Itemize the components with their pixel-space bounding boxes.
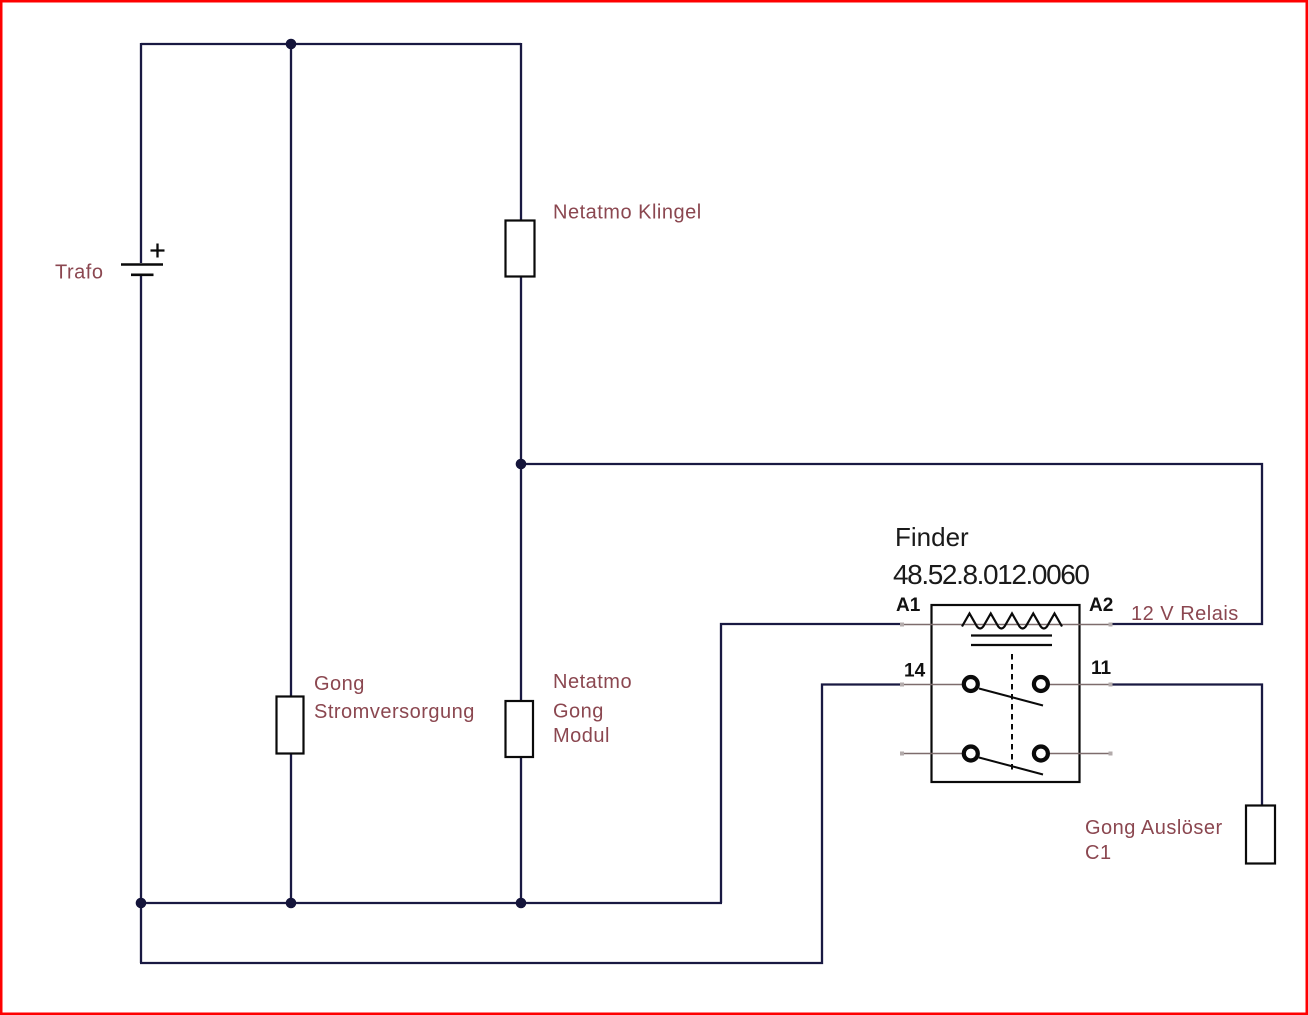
relay coil winding bbox=[962, 614, 1062, 629]
pin label A1 bbox=[896, 595, 921, 616]
junction node Klingel/relay branch bbox=[516, 459, 527, 470]
label Netatmo Klingel bbox=[553, 202, 702, 224]
svg-text:48.52.8.012.0060: 48.52.8.012.0060 bbox=[893, 559, 1089, 590]
relay contact circle 11 bbox=[1034, 677, 1048, 691]
wire left column (Trafo branch) lower bbox=[140, 276, 142, 963]
pin end dot A2 bbox=[1109, 623, 1113, 627]
svg-text:A2: A2 bbox=[1089, 595, 1113, 616]
battery Trafo symbol bbox=[121, 244, 165, 275]
relay contact circle lower-left bbox=[964, 747, 978, 761]
label Netatmo Gong Modul bbox=[553, 671, 632, 747]
pin label 11 bbox=[1091, 658, 1112, 679]
pin line 11 stub bbox=[1049, 684, 1111, 686]
svg-text:Trafo: Trafo bbox=[55, 262, 103, 284]
wire left column (Trafo branch) upper bbox=[140, 43, 142, 263]
relay core line lower bbox=[971, 644, 1052, 646]
svg-text:Gong: Gong bbox=[314, 673, 365, 695]
svg-text:A1: A1 bbox=[896, 595, 921, 616]
label Gong Stromversorgung bbox=[314, 673, 475, 723]
resistor Gong Stromversorgung bbox=[277, 697, 304, 754]
pin line lower-left spare stub bbox=[903, 753, 963, 755]
wire middle column (Gong Stromversorgung) lower bbox=[290, 753, 292, 903]
relay contact arm lower bbox=[979, 758, 1043, 775]
label 12 V Relais bbox=[1131, 603, 1239, 625]
svg-text:C1: C1 bbox=[1085, 842, 1112, 864]
svg-text:12 V Relais: 12 V Relais bbox=[1131, 603, 1239, 625]
junction node bottom Klingel column bbox=[516, 898, 527, 909]
wire middle column (Gong Stromversorgung) upper bbox=[290, 44, 292, 696]
junction node bottom middle bbox=[286, 898, 297, 909]
pin line A1-A2 through coil bbox=[903, 624, 1111, 626]
svg-text:14: 14 bbox=[904, 661, 926, 682]
svg-text:Gong Auslöser: Gong Auslöser bbox=[1085, 817, 1223, 839]
wire top bus from left column to Klingel column bbox=[141, 43, 521, 45]
label Gong Ausloeser C1 bbox=[1085, 817, 1223, 864]
pin end dot lower-right spare bbox=[1109, 752, 1113, 756]
pin label A2 bbox=[1089, 595, 1113, 616]
wire relay pin 11 to Gong Ausloeser bbox=[1111, 685, 1262, 807]
relay contact circle lower-right bbox=[1034, 747, 1048, 761]
resistor Netatmo Gong Modul bbox=[506, 701, 534, 757]
relay core line upper bbox=[971, 634, 1052, 636]
resistor Netatmo Klingel bbox=[506, 221, 535, 277]
pin line 14 stub bbox=[903, 684, 963, 686]
wire relay pin 14 to bottom bus 2 bbox=[140, 685, 903, 964]
label Trafo bbox=[55, 262, 103, 284]
relay K1 Finder body bbox=[932, 605, 1080, 782]
relay contact arm upper bbox=[979, 689, 1043, 706]
pin end dot A1 bbox=[900, 623, 904, 627]
wire Klingel column middle bbox=[520, 277, 522, 701]
wire bottom bus 1 bbox=[141, 902, 722, 904]
wire Klingel column upper bbox=[520, 43, 522, 220]
wire Klingel column lower bbox=[520, 757, 522, 903]
svg-text:Finder: Finder bbox=[895, 522, 969, 552]
label 48.52.8.012.0060 bbox=[893, 559, 1089, 590]
pin end dot 14 bbox=[900, 683, 904, 687]
pin label 14 bbox=[904, 661, 926, 682]
junction node top bus bbox=[286, 39, 297, 50]
label Finder bbox=[895, 522, 969, 552]
wire node to relay A2 (right branch) bbox=[521, 464, 1262, 624]
pin end dot lower-left spare bbox=[900, 752, 904, 756]
svg-text:Modul: Modul bbox=[553, 725, 610, 747]
wire relay A1 to bottom bus bbox=[721, 624, 903, 903]
svg-text:Stromversorgung: Stromversorgung bbox=[314, 701, 475, 723]
pin line lower-right spare stub bbox=[1049, 753, 1111, 755]
svg-text:Netatmo Klingel: Netatmo Klingel bbox=[553, 202, 702, 224]
junction node bottom left bbox=[136, 898, 147, 909]
relay contact circle 14 bbox=[964, 677, 978, 691]
resistor Gong Ausloeser C1 bbox=[1246, 806, 1275, 864]
svg-text:11: 11 bbox=[1091, 658, 1112, 679]
pin end dot 11 bbox=[1109, 683, 1113, 687]
relay actuator dashed link bbox=[1011, 654, 1013, 772]
svg-text:Netatmo: Netatmo bbox=[553, 671, 632, 693]
svg-text:Gong: Gong bbox=[553, 701, 604, 723]
